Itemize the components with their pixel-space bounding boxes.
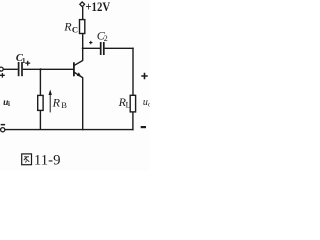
wire junction to C2 <box>83 47 100 49</box>
plus at input <box>0 73 5 78</box>
svg-text:11-9: 11-9 <box>34 152 61 168</box>
capacitor C1 <box>18 62 20 76</box>
plus at output <box>141 73 147 79</box>
base wire <box>23 68 73 70</box>
capacitor C2 <box>100 42 102 55</box>
svg-text:o: o <box>148 99 150 108</box>
caption tu character <box>22 154 32 165</box>
plus at C2 <box>89 41 92 44</box>
power terminal +12V <box>80 2 85 7</box>
wire RC to collector corner <box>82 34 84 61</box>
wire base junction to RB <box>39 69 41 95</box>
resistor RB <box>38 95 43 110</box>
svg-text:2: 2 <box>104 34 108 43</box>
transistor collector lead <box>74 60 83 65</box>
minus at output <box>141 126 146 128</box>
wire C2 to right rail <box>105 47 134 49</box>
wire RB to bottom <box>39 110 41 129</box>
node collector junction <box>82 47 84 49</box>
wire terminal to RC <box>82 7 84 20</box>
wire RL to bottom <box>132 112 134 130</box>
plus at C1 <box>25 61 30 66</box>
svg-text:+12V: +12V <box>85 0 110 14</box>
input terminal <box>0 67 3 71</box>
wire right rail down <box>132 48 134 96</box>
minus at input bottom <box>1 124 5 126</box>
emitter rail <box>82 78 84 131</box>
svg-text:L: L <box>126 100 131 110</box>
svg-text:R: R <box>52 95 61 109</box>
transistor Q1 bar <box>73 62 75 76</box>
bottom wire <box>5 129 134 131</box>
svg-text:C: C <box>72 24 78 34</box>
output terminal bottom-left <box>1 128 5 132</box>
resistor RL <box>130 95 135 112</box>
transistor emitter lead <box>74 72 83 78</box>
current arrow IB <box>49 94 51 113</box>
svg-text:B: B <box>61 100 67 110</box>
wire input to C1 <box>3 68 18 70</box>
node base junction <box>39 68 41 70</box>
svg-text:i: i <box>8 100 10 108</box>
resistor RC <box>80 20 85 34</box>
emitter arrowhead <box>77 72 82 77</box>
